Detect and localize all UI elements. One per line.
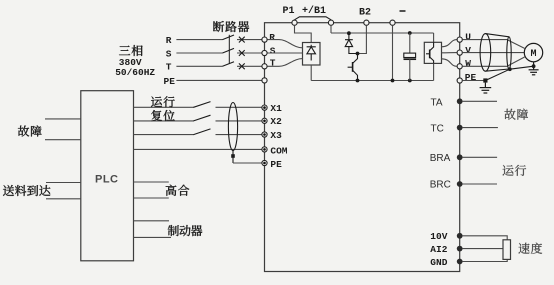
terminal COM [262, 147, 267, 152]
breaker blade S [223, 48, 235, 53]
terminal X3 [262, 132, 267, 137]
svg-text:10V: 10V [430, 231, 447, 242]
svg-text:V: V [465, 45, 471, 56]
svg-text:X2: X2 [270, 116, 282, 127]
terminal S input [262, 50, 267, 55]
wire DC+ into inverter module [433, 33, 435, 42]
wire phase R to breaker [176, 39, 222, 41]
svg-text:X1: X1 [270, 103, 282, 114]
junction brake node [356, 52, 360, 56]
breaker linkage tie [228, 35, 230, 64]
svg-text:BRC: BRC [430, 180, 451, 191]
switch contact reset [194, 115, 211, 121]
wire S to rectifier [268, 52, 303, 54]
terminal U output [457, 37, 462, 42]
wire V to motor [463, 52, 525, 54]
label run 运行 [151, 96, 175, 107]
svg-text:PE: PE [270, 159, 282, 170]
wire inverter module to DC- bus [433, 63, 435, 80]
terminal BRC [457, 181, 463, 187]
junction DC+ brake diode [347, 31, 351, 35]
wire breaker to terminal T [237, 65, 262, 67]
terminal PE [262, 160, 267, 165]
terminal W output [457, 64, 462, 69]
svg-text:TC: TC [431, 124, 444, 135]
wire DC- bus [311, 80, 433, 82]
wire fault input pair to PLC [45, 118, 81, 120]
wire DC+ bus [331, 32, 434, 34]
wire 10V [463, 236, 508, 240]
label speed 速度 [518, 243, 542, 254]
svg-text:W: W [465, 58, 471, 69]
svg-text:GND: GND [430, 257, 447, 268]
wire W to motor [463, 57, 525, 66]
PLC controller block [81, 91, 134, 261]
wire reset to X2 [216, 120, 262, 122]
label fault input 故障 [18, 125, 42, 136]
terminal PE output [457, 78, 462, 83]
wire GND [463, 259, 508, 261]
label reset 复位 [151, 110, 175, 121]
terminal X1 [262, 105, 267, 110]
svg-text:X3: X3 [270, 130, 282, 141]
label feed-arrival 送料到达 [3, 185, 50, 196]
svg-text:R: R [166, 35, 172, 46]
svg-text:B2: B2 [359, 8, 371, 19]
terminal +/B1 [328, 20, 333, 25]
svg-text:U: U [465, 31, 471, 42]
brake transistor Q [348, 54, 358, 81]
shield of control cable [228, 103, 237, 151]
wire B2 drop [358, 26, 367, 54]
svg-text:R: R [269, 32, 275, 43]
junction emitter on DC- bus [356, 79, 360, 83]
contact mark T [239, 63, 245, 69]
inverter main block outline [265, 23, 460, 272]
rectifier box [303, 43, 321, 66]
svg-text:BRA: BRA [430, 153, 451, 164]
junction shield [508, 67, 512, 71]
ground PE [484, 83, 486, 88]
wire T to rectifier [268, 59, 303, 67]
terminal R input [262, 37, 267, 42]
wire pair output 高合 [134, 181, 169, 183]
wire breaker to terminal R [237, 39, 262, 41]
wire module to V [442, 52, 457, 54]
terminal X2 [262, 118, 267, 123]
jumper P1 to +/B1 [295, 17, 332, 20]
wire module to W [442, 59, 457, 67]
wire U to motor [463, 40, 525, 49]
contact mark S [239, 50, 245, 56]
svg-text:M: M [530, 49, 536, 60]
terminal PE input [262, 78, 267, 83]
breaker blade T [223, 62, 235, 67]
ground motor [529, 70, 539, 75]
junction minus on DC- bus [391, 79, 395, 83]
breaker blade R [223, 35, 235, 40]
wire third command from PLC [134, 134, 195, 136]
wire to X3 [216, 134, 262, 136]
wire pair output brake 制动器 [134, 220, 170, 222]
motor cable shield cone [480, 34, 511, 72]
capacitor C bus [409, 33, 411, 53]
brake diode [345, 33, 358, 53]
wire COM from PLC [134, 148, 262, 150]
terminal GND [457, 259, 463, 265]
switch contact run [194, 102, 211, 108]
terminal B2 [364, 20, 369, 25]
motor M [524, 43, 542, 61]
svg-text:AI2: AI2 [430, 244, 447, 255]
wire TA [463, 100, 497, 102]
terminal TA [457, 98, 463, 104]
terminal minus [390, 20, 395, 25]
svg-text:P1: P1 [283, 6, 295, 17]
label brake 制动器 [168, 225, 203, 236]
inverter module box [424, 42, 441, 63]
wire shield to PE terminal [233, 162, 262, 164]
label circuit breaker 断路器 [213, 21, 249, 32]
wire motor frame to ground [533, 62, 535, 70]
wire PE feeder [176, 79, 261, 81]
terminal V output [457, 50, 462, 55]
wire P1 to rectifier [295, 26, 312, 43]
rectifier diode symbol [307, 45, 316, 61]
terminal P1 [292, 20, 297, 25]
wire BRA [463, 156, 498, 158]
wire phase S to breaker [176, 52, 222, 54]
wire breaker to terminal S [237, 52, 262, 54]
label three-phase 三相 [119, 45, 142, 56]
wire feed-arrival input pair to PLC [46, 182, 81, 184]
svg-text:TA: TA [431, 98, 443, 109]
svg-text:T: T [166, 62, 172, 73]
wire TC [463, 127, 498, 129]
svg-text:S: S [166, 48, 172, 59]
wire phase T to breaker [176, 65, 222, 67]
wire run to X1 [216, 106, 262, 108]
label 高合 [166, 185, 190, 196]
terminal BRA [457, 154, 463, 160]
svg-text:PE: PE [164, 76, 176, 87]
terminal T input [262, 64, 267, 69]
terminal TC [457, 125, 463, 131]
wire BRC [463, 183, 497, 185]
label run relay 运行 [503, 165, 527, 176]
wire module to U [442, 40, 457, 47]
svg-text:+/B1: +/B1 [302, 5, 326, 17]
contact mark R [239, 37, 245, 43]
svg-text:S: S [270, 45, 276, 56]
junction capacitor on DC- bus [408, 79, 412, 83]
wire minus drop [392, 26, 394, 81]
terminal AI2 [457, 246, 463, 252]
potentiometer speed [503, 240, 511, 260]
wire R to rectifier [268, 40, 303, 48]
wire cable shield to motor ground [485, 66, 533, 80]
shield drain connection [232, 151, 234, 164]
wire rectifier to DC- bus [310, 65, 312, 81]
label fault relay 故障 [504, 109, 528, 120]
wire +/B1 drop [330, 26, 332, 33]
wire PE to ground [463, 80, 486, 82]
junction motor frame [532, 64, 536, 68]
svg-text:COM: COM [270, 146, 287, 157]
svg-text:PE: PE [465, 72, 477, 83]
wire reset command from PLC [134, 120, 195, 122]
wire AI2 [463, 248, 503, 250]
inverter transistor symbol [426, 42, 434, 63]
wire run command from PLC [134, 106, 195, 108]
switch contact X3 [194, 129, 211, 135]
label minus [400, 10, 406, 12]
svg-text:50/60HZ: 50/60HZ [115, 67, 155, 78]
svg-text:PLC: PLC [95, 174, 119, 186]
junction DC+ capacitor [408, 31, 412, 35]
terminal 10V [457, 233, 463, 239]
